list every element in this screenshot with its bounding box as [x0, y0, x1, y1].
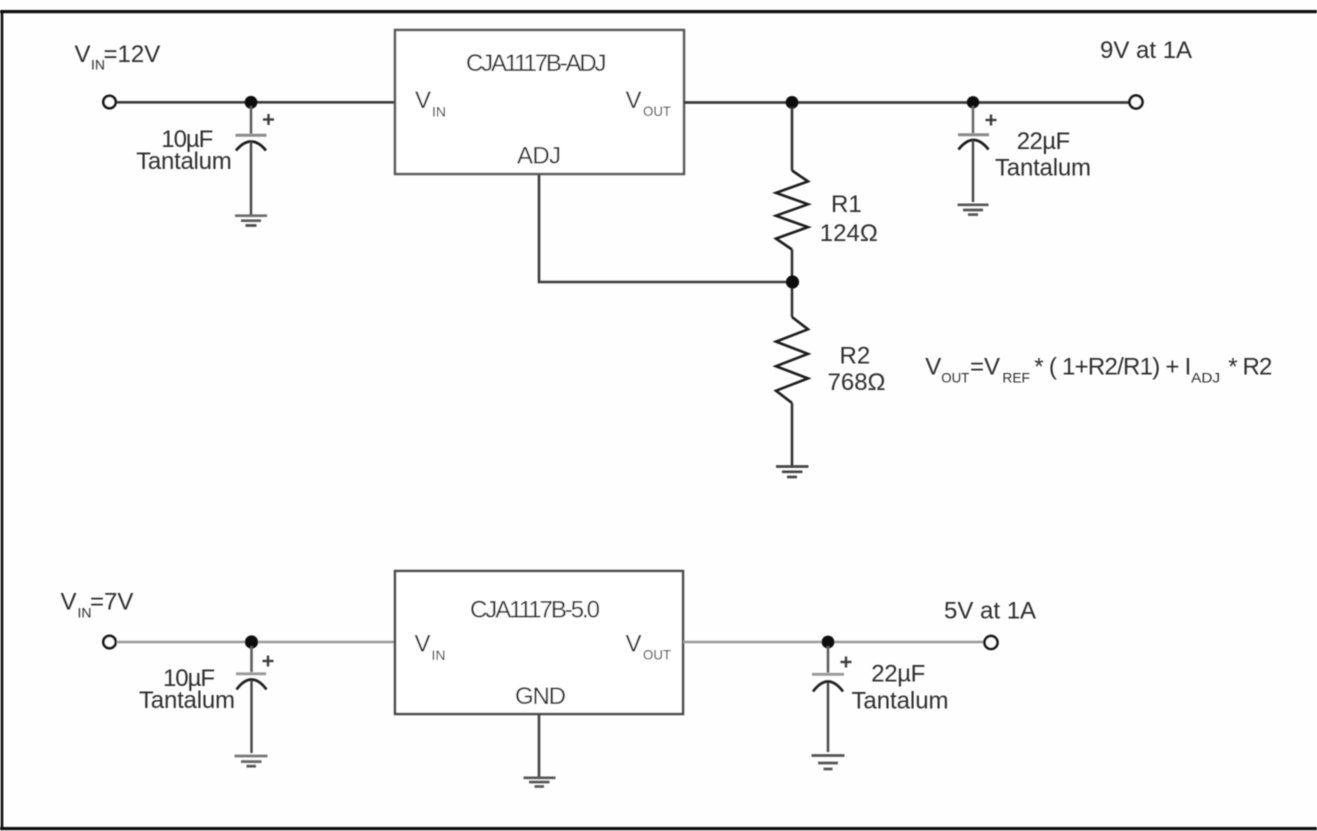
wire R2 top: [791, 288, 794, 317]
wire output rail bottom: [683, 641, 984, 644]
svg-text:124Ω: 124Ω: [820, 220, 878, 247]
svg-text:V: V: [626, 631, 642, 658]
terminal input 1: [103, 96, 115, 108]
capacitor C1 10uF: [236, 106, 275, 215]
ground R2: [776, 467, 809, 478]
terminal output 1: [1130, 96, 1143, 109]
formula VOUT equation: [925, 354, 1272, 386]
op-amp U1 regulator CJA1117B-ADJ box: [395, 30, 684, 174]
svg-text:V: V: [61, 589, 77, 616]
svg-text:Tantalum: Tantalum: [139, 687, 235, 714]
capacitor C3 10uF: [236, 646, 274, 753]
svg-text:OUT: OUT: [941, 370, 969, 386]
ground C3: [235, 756, 268, 766]
svg-text:IN: IN: [432, 104, 446, 120]
svg-text:GND: GND: [515, 683, 566, 710]
U2 pin VIN: [415, 631, 446, 664]
node VIN1 label: [75, 41, 161, 73]
wire ADJ feedback: [539, 175, 786, 282]
wire R2 bottom: [791, 403, 794, 466]
wire output rail top: [684, 101, 1130, 104]
svg-text:* ( 1+R2/R1) + I: * ( 1+R2/R1) + I: [1034, 354, 1191, 381]
svg-text:768Ω: 768Ω: [828, 369, 886, 396]
capacitor C4 22uF: [812, 646, 852, 752]
svg-text:REF: REF: [1002, 370, 1030, 386]
svg-text:9V at 1A: 9V at 1A: [1100, 37, 1192, 64]
ground C1: [235, 216, 267, 226]
node junction C2: [967, 96, 979, 108]
svg-text:Tantalum: Tantalum: [852, 688, 949, 715]
svg-text:V: V: [75, 41, 91, 68]
svg-text:V: V: [415, 631, 431, 658]
svg-text:V: V: [415, 87, 431, 114]
node VIN2 label: [61, 589, 134, 621]
wire GND pin: [538, 714, 541, 777]
ground C2: [958, 205, 989, 215]
wire R1 bottom: [791, 250, 794, 283]
wire input rail bottom: [117, 641, 397, 644]
svg-text:R1: R1: [831, 191, 862, 218]
R2 label: [828, 343, 886, 397]
wire input rail top: [117, 101, 397, 104]
ground U2: [524, 778, 556, 787]
svg-text:=7V: =7V: [90, 589, 133, 616]
C4 value label: [852, 661, 949, 715]
R1 label: [820, 191, 878, 247]
svg-text:=12V: =12V: [104, 41, 161, 68]
svg-text:V: V: [626, 87, 642, 114]
terminal output 2: [985, 636, 998, 649]
capacitor C2 22uF: [958, 106, 997, 202]
svg-text:22µF: 22µF: [871, 661, 925, 688]
svg-text:Tantalum: Tantalum: [995, 155, 1091, 182]
svg-text:CJA1117B-5.0: CJA1117B-5.0: [470, 597, 600, 624]
node junction C4: [822, 636, 835, 649]
resistor R2: [776, 317, 808, 403]
C2 value label: [995, 128, 1091, 182]
svg-text:V: V: [925, 354, 941, 381]
svg-text:ADJ: ADJ: [1191, 370, 1220, 386]
node junction ADJ feedback: [786, 275, 799, 288]
svg-text:ADJ: ADJ: [517, 143, 561, 170]
op-amp U2 regulator CJA1117B-5.0 box: [395, 571, 683, 714]
resistor R1: [776, 171, 808, 250]
node junction R1 top: [786, 96, 799, 109]
node junction C1: [245, 96, 258, 109]
U2 pin VOUT: [626, 631, 672, 663]
svg-text:CJA1117B-ADJ: CJA1117B-ADJ: [466, 50, 607, 77]
svg-text:IN: IN: [432, 647, 446, 663]
wire R1 top: [791, 106, 794, 171]
ground C4: [812, 756, 845, 770]
C3 value label: [139, 665, 235, 714]
svg-text:R2: R2: [840, 343, 871, 370]
svg-text:Tantalum: Tantalum: [136, 148, 232, 175]
svg-text:* R2: * R2: [1228, 354, 1272, 381]
node junction C3: [245, 635, 258, 648]
svg-text:=V: =V: [970, 354, 1000, 381]
U1 pin VIN: [415, 87, 446, 120]
U1 pin VOUT: [626, 87, 672, 119]
terminal input 2: [103, 636, 115, 648]
svg-text:22µF: 22µF: [1017, 128, 1070, 155]
capacitor C1 value label: [136, 126, 232, 175]
svg-text:OUT: OUT: [643, 103, 671, 119]
svg-text:OUT: OUT: [643, 647, 671, 663]
svg-text:5V at 1A: 5V at 1A: [944, 598, 1036, 625]
